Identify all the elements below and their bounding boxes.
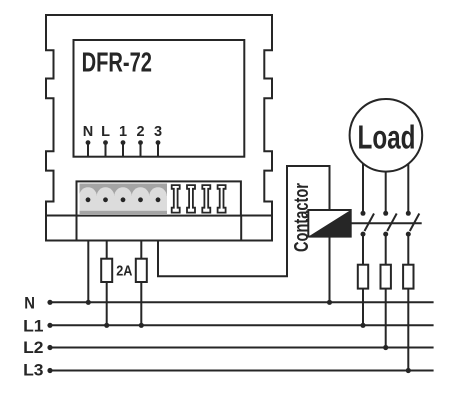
- bus line L2: [50, 347, 434, 349]
- bottom plate right divider: [240, 216, 242, 241]
- wire terminal 2 through fuse F2 to L1 bus: [140, 241, 142, 326]
- relay slot 3: [202, 185, 210, 212]
- N bus start dot: [47, 300, 52, 305]
- switch pole 3 upper contact: [406, 211, 411, 216]
- junction fuse F1 x L1 bus: [104, 323, 109, 328]
- phase C wire load to switch: [407, 150, 409, 213]
- svg-text:DFR-72: DFR-72: [82, 47, 152, 78]
- svg-text:L2: L2: [23, 339, 43, 357]
- bus line L3: [50, 370, 434, 372]
- relay slot 4: [218, 185, 226, 212]
- pin L dot: [103, 140, 108, 145]
- svg-text:2: 2: [136, 124, 144, 140]
- fuse F2: [136, 259, 147, 282]
- junction coil x N bus: [327, 300, 332, 305]
- phase B wire switch to fuse to L2: [385, 234, 387, 347]
- switch blade pole 2: [387, 214, 397, 232]
- junction wire N x N bus: [86, 300, 91, 305]
- svg-text:L3: L3: [23, 361, 43, 379]
- bus line L1: [50, 324, 434, 326]
- bus line N: [50, 301, 434, 303]
- junction fuse F2 x L1 bus: [139, 323, 144, 328]
- switch pole 3 lower contact: [406, 232, 411, 237]
- svg-text:3: 3: [154, 124, 162, 140]
- switch pole 2 lower contact: [383, 232, 388, 237]
- svg-text:N: N: [24, 295, 35, 313]
- svg-text:1: 1: [119, 124, 127, 140]
- switch pole 1 lower contact: [361, 232, 366, 237]
- phase A wire load to switch: [362, 150, 364, 213]
- L2 bus start dot: [47, 345, 52, 350]
- contactor coil K1: [308, 210, 350, 237]
- wire L from device through fuse F1 to L1 bus: [106, 241, 108, 326]
- switch blade pole 1: [365, 214, 375, 232]
- phase B wire load to switch: [385, 150, 387, 213]
- pin 1 lead: [122, 143, 124, 157]
- L1 bus start dot: [47, 323, 52, 328]
- pin N lead: [87, 143, 89, 157]
- terminal block gray: [79, 184, 167, 215]
- pin 3 dot: [156, 140, 161, 145]
- svg-text:2A: 2A: [116, 263, 133, 279]
- relay slot 1: [172, 185, 180, 212]
- pin 2 lead: [140, 143, 142, 157]
- pin L lead: [105, 143, 107, 157]
- wire N from device to N bus: [87, 241, 89, 303]
- mechanical linkage: [351, 222, 422, 224]
- front panel box: [74, 40, 245, 157]
- device DFR-72 enclosure outline: [46, 15, 272, 241]
- wire terminal 3 to contactor coil: [158, 166, 330, 276]
- phase fuse FB: [381, 265, 391, 289]
- junction phase B x L2 bus: [383, 345, 388, 350]
- pin 1 dot: [121, 140, 126, 145]
- switch pole 2 upper contact: [383, 211, 388, 216]
- device bottom plate top line: [46, 215, 272, 217]
- junction phase A x L1 bus: [360, 323, 365, 328]
- switch pole 1 upper contact: [361, 211, 366, 216]
- fuse F1 2A: [101, 259, 112, 282]
- phase fuse FC: [403, 265, 413, 289]
- bottom plate left divider: [76, 216, 78, 241]
- terminal block screws: [86, 197, 91, 202]
- load circle: [350, 99, 423, 172]
- junction phase C x L3 bus: [406, 368, 411, 373]
- pin N dot: [86, 140, 91, 145]
- svg-text:N: N: [83, 124, 93, 140]
- wire contactor coil to N bus: [329, 237, 331, 303]
- svg-text:Load: Load: [358, 119, 416, 156]
- terminal strip box: [77, 181, 241, 215]
- svg-text:Contactor: Contactor: [291, 183, 313, 252]
- phase C wire switch to fuse to L3: [407, 234, 409, 370]
- pin 3 lead: [157, 143, 159, 157]
- svg-text:L: L: [101, 124, 110, 140]
- phase A wire switch to fuse to L1: [362, 234, 364, 325]
- phase fuse FA: [358, 265, 368, 289]
- switch blade pole 3: [410, 214, 420, 232]
- relay slot 2: [187, 185, 195, 212]
- pin 2 dot: [138, 140, 143, 145]
- svg-text:L1: L1: [23, 317, 43, 335]
- L3 bus start dot: [47, 368, 52, 373]
